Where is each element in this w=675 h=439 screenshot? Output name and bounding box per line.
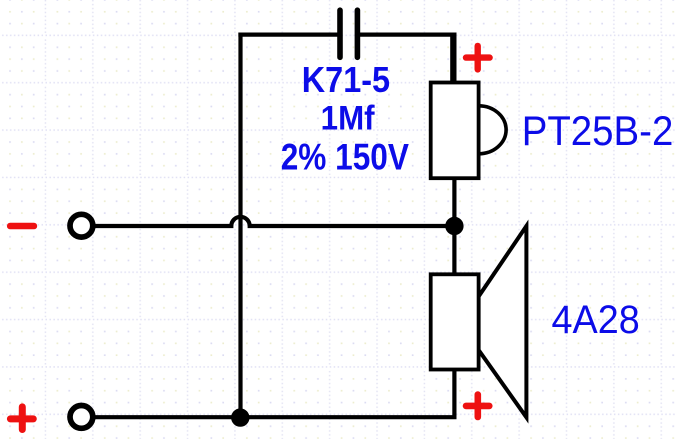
capacitor C1 K71-5 plates [340,10,357,57]
polarity marker minus (red, left) [10,223,34,230]
svg-text:1Mf: 1Mf [321,98,376,137]
tweeter PT25B-2 body [431,83,506,179]
svg-text:K71-5: K71-5 [302,60,390,100]
svg-text:2% 150V: 2% 150V [281,137,409,178]
wire speaker bottom stub [452,370,456,418]
wire bottom horizontal [95,415,457,419]
polarity marker plus (red, speaker bottom) [466,395,489,417]
terminal minus (input, top) [70,214,93,237]
wire top left: from left vertical riser to capacitor left plate [238,32,338,36]
wire middle horizontal with hop over left riser [95,217,454,226]
label 4A28 [552,298,640,342]
terminal plus (input, bottom) [70,406,93,429]
speaker 4A28 horn cone [479,226,527,417]
wire right vertical: tweeter bottom through junction to speaker top [452,178,456,274]
junction node A (tweeter/speaker tap) [445,217,463,235]
capacitor value label K71-5 / 1Mf / 2% 150V [281,60,409,178]
junction node B (bottom rail) [231,408,249,426]
svg-text:PT25B-2: PT25B-2 [522,107,674,154]
label PT25B-2 [522,107,674,154]
svg-text:4A28: 4A28 [552,298,640,342]
polarity marker plus (red, tweeter top) [466,46,490,70]
speaker 4A28 body [431,274,479,369]
wire left vertical riser [238,33,242,418]
polarity marker plus (red, bottom left) [10,407,33,430]
wire top right: from capacitor right plate to right riser and down to tweeter [357,33,454,83]
